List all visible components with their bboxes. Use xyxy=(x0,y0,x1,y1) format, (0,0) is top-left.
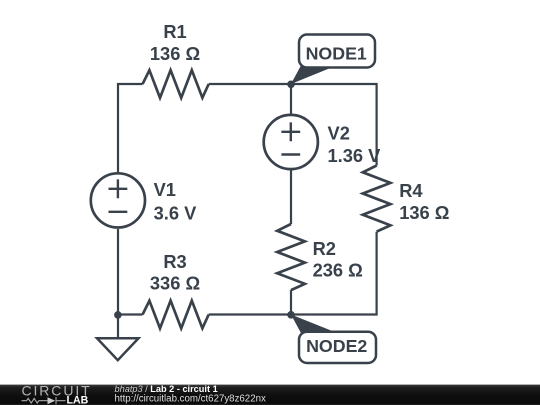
svg-text:LAB: LAB xyxy=(67,395,89,405)
svg-text:1.36 V: 1.36 V xyxy=(328,145,382,166)
svg-text:bhatp3 / Lab 2 - circuit 1: bhatp3 / Lab 2 - circuit 1 xyxy=(115,384,218,394)
svg-text:NODE1: NODE1 xyxy=(306,43,367,63)
svg-text:R1: R1 xyxy=(163,21,186,42)
svg-text:R3: R3 xyxy=(163,251,186,272)
svg-text:236 Ω: 236 Ω xyxy=(313,260,363,281)
svg-text:R2: R2 xyxy=(313,238,336,259)
svg-text:R4: R4 xyxy=(399,180,423,201)
svg-text:V1: V1 xyxy=(154,179,176,200)
svg-text:NODE2: NODE2 xyxy=(306,336,367,356)
svg-text:336 Ω: 336 Ω xyxy=(150,272,200,293)
svg-text:3.6 V: 3.6 V xyxy=(154,203,197,224)
svg-text:136 Ω: 136 Ω xyxy=(150,43,200,64)
svg-text:V2: V2 xyxy=(328,122,350,143)
svg-text:136 Ω: 136 Ω xyxy=(399,202,449,223)
svg-text:http://circuitlab.com/ct627y8z: http://circuitlab.com/ct627y8z622nx xyxy=(115,394,266,405)
